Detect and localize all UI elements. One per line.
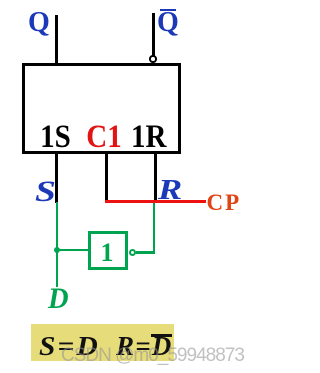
wire Q-bar output — [152, 13, 155, 56]
watermark — [61, 345, 244, 367]
wire S input (green vertical) — [56, 202, 59, 287]
pin label C1 — [74, 118, 134, 155]
node CP — [207, 190, 242, 216]
inverter label 1 — [89, 238, 125, 268]
pin stub 1R — [154, 154, 157, 200]
node Q-bar — [157, 7, 179, 39]
formula R=D-bar — [116, 331, 173, 362]
wire Q output — [55, 15, 58, 63]
latch box U1 — [22, 63, 181, 154]
inverter U2 box — [88, 231, 128, 271]
pin stub C1 — [105, 154, 108, 200]
inverter output bubble — [129, 249, 136, 256]
node S — [35, 175, 56, 209]
wire inverter output — [136, 251, 155, 254]
wire inverter input — [57, 249, 89, 252]
pin label 1R — [119, 118, 179, 155]
formula S=D — [39, 331, 100, 362]
wire CP (red) — [105, 200, 206, 203]
wire R input (green vertical) — [153, 203, 156, 254]
node Q — [28, 7, 50, 39]
pin stub 1S — [55, 154, 58, 203]
node R — [158, 174, 182, 207]
pin label 1S — [26, 118, 86, 155]
junction dot on D net — [54, 247, 60, 253]
node D — [48, 282, 69, 316]
inversion bubble on Q-bar — [149, 55, 157, 63]
formula highlight box — [31, 324, 174, 361]
